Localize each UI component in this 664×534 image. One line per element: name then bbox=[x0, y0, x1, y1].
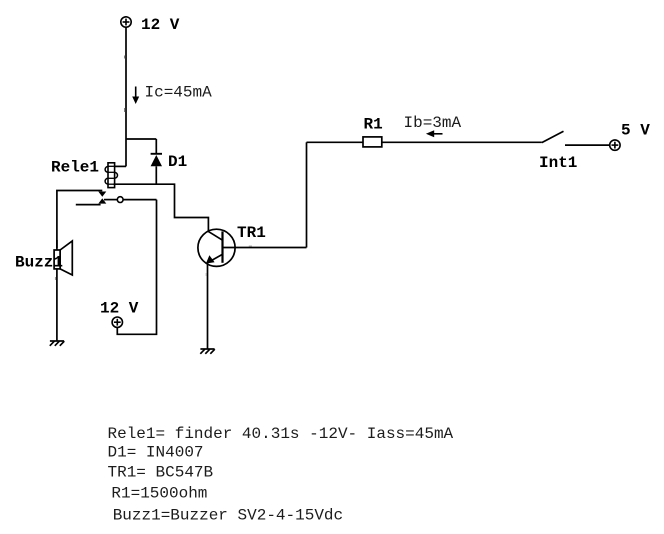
svg-text:R1=1500ohm: R1=1500ohm bbox=[111, 485, 207, 503]
wire base up to R1 line bbox=[306, 142, 308, 247]
svg-text:Int1: Int1 bbox=[539, 154, 577, 172]
svg-text:Buzz1=Buzzer SV2-4-15Vdc: Buzz1=Buzzer SV2-4-15Vdc bbox=[113, 506, 343, 524]
buzzer Buzz1 bbox=[54, 241, 72, 275]
wire base lead bbox=[223, 247, 307, 249]
svg-text:Rele1= finder 40.31s -12V- Ias: Rele1= finder 40.31s -12V- Iass=45mA bbox=[108, 425, 454, 443]
contact arrow down bbox=[98, 192, 106, 197]
wire contact arm bbox=[104, 199, 117, 201]
wire down to V3 loop bbox=[117, 200, 156, 335]
svg-text:TR1: TR1 bbox=[237, 224, 266, 242]
current arrow Ic bbox=[132, 87, 139, 105]
svg-text:Ic=45mA: Ic=45mA bbox=[145, 84, 213, 102]
wire node A down bbox=[125, 139, 127, 166]
wire contact NO stub bbox=[76, 204, 101, 206]
ground (buzzer) bbox=[50, 341, 65, 346]
wire R1 line left segment bbox=[307, 141, 364, 143]
wire R1 to switch bbox=[382, 141, 542, 143]
svg-text:Ib=3mA: Ib=3mA bbox=[404, 114, 462, 132]
transistor TR1 bbox=[198, 229, 235, 266]
wire coil bottom / diode bottom to collector branch bbox=[114, 184, 209, 231]
contact arrow up bbox=[98, 198, 106, 203]
resistor R1 bbox=[363, 137, 382, 147]
joint tick on emitter wire bbox=[205, 273, 207, 276]
wire contact NC throw bbox=[57, 191, 102, 249]
supply V2 +5V symbol bbox=[610, 140, 620, 150]
svg-text:Rele1: Rele1 bbox=[51, 159, 99, 177]
svg-text:5 V: 5 V bbox=[621, 122, 650, 140]
svg-text:TR1= BC547B: TR1= BC547B bbox=[108, 464, 214, 482]
wire contact arm to right bbox=[123, 199, 156, 201]
svg-text:D1= IN4007: D1= IN4007 bbox=[108, 444, 204, 462]
diode D1 bbox=[151, 139, 162, 184]
svg-text:Buzz1: Buzz1 bbox=[15, 254, 63, 272]
svg-text:12 V: 12 V bbox=[141, 16, 180, 34]
wire switch to V2 bbox=[565, 144, 610, 146]
joint tick on base wire bbox=[249, 245, 252, 247]
joint tick on buzzer wire bbox=[55, 277, 57, 280]
contact pivot circle bbox=[117, 197, 123, 203]
ground (emitter) bbox=[200, 349, 215, 354]
current arrow Ib bbox=[426, 130, 443, 137]
svg-text:R1: R1 bbox=[364, 116, 383, 134]
switch Int1 blade bbox=[542, 131, 564, 142]
svg-text:D1: D1 bbox=[168, 153, 187, 171]
relay coil Rele1 bbox=[105, 163, 117, 188]
wire node A to diode top bbox=[126, 138, 156, 140]
wire V1 to node A bbox=[125, 27, 127, 139]
wire buzzer branch bbox=[56, 240, 58, 341]
supply V1 +12V symbol bbox=[121, 17, 131, 27]
svg-text:12 V: 12 V bbox=[100, 300, 139, 318]
wire emitter down bbox=[207, 262, 209, 349]
supply V3 +12V symbol bbox=[112, 317, 122, 327]
joint tick on V1 wire upper bbox=[124, 56, 126, 59]
joint tick on V1 wire lower bbox=[124, 108, 126, 112]
wire to relay coil top bbox=[114, 165, 127, 167]
